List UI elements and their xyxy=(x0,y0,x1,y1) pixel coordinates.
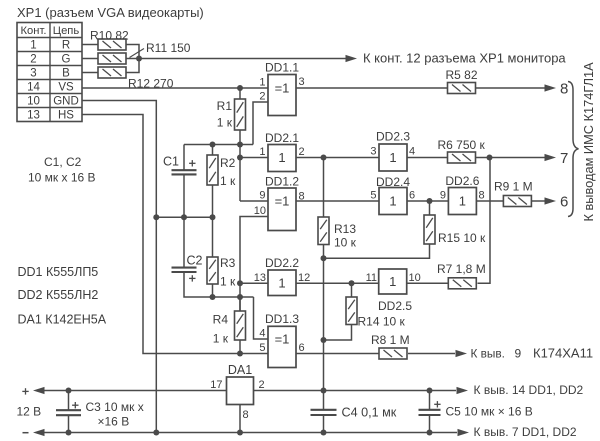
wire R4 bottom to HS net xyxy=(239,340,241,354)
node pin10 net at DD2.2 pin 13 xyxy=(237,280,243,286)
svg-text:R13: R13 xyxy=(334,222,356,236)
node net A R2 top xyxy=(210,142,216,148)
svg-text:DD2.6: DD2.6 xyxy=(445,174,479,188)
wire VS row to DD1.1 pin 1 xyxy=(82,87,268,89)
gate DD1.3 xyxy=(268,326,296,367)
wire from XP1 pin 3 B to R12 xyxy=(82,72,98,74)
svg-text:R6 750 к: R6 750 к xyxy=(438,138,486,152)
node J1 junction R10 R11 R12 xyxy=(126,58,139,60)
svg-text:4: 4 xyxy=(259,328,265,340)
wire net B vertical from net A xyxy=(239,145,241,202)
node GND to minus rail xyxy=(153,430,159,436)
wire R7 to 7-line riser xyxy=(478,158,491,284)
wire HS row to DD1.3 pin 5 xyxy=(82,115,268,354)
arrow output 6 xyxy=(545,197,557,204)
wire R5 to pin8 arrow xyxy=(476,87,545,89)
svg-text:Конт.: Конт. xyxy=(21,25,47,37)
wire C5 bottom xyxy=(429,415,431,433)
wire minus rail xyxy=(42,432,457,434)
wire GND row xyxy=(82,101,156,433)
svg-text:12 В: 12 В xyxy=(17,405,42,419)
svg-text:Цепь: Цепь xyxy=(53,25,80,37)
svg-text:R10 82: R10 82 xyxy=(90,29,129,43)
svg-text:R5 82: R5 82 xyxy=(446,68,478,82)
resistor R6 xyxy=(448,152,476,163)
svg-text:DD1 К555ЛП5: DD1 К555ЛП5 xyxy=(18,265,99,279)
brace outputs xyxy=(568,82,579,217)
wire DD1.2 pin 10 to pin 13 net xyxy=(240,217,268,312)
gate DD2.5 xyxy=(379,269,407,294)
resistor R3 xyxy=(207,257,218,284)
svg-text:=1: =1 xyxy=(275,81,290,96)
svg-text:C1, C2: C1, C2 xyxy=(44,155,82,169)
svg-text:GND: GND xyxy=(53,96,79,108)
svg-text:12: 12 xyxy=(298,272,310,284)
svg-text:DD1.1: DD1.1 xyxy=(265,61,299,75)
svg-text:R4: R4 xyxy=(213,313,229,327)
resistor R1 xyxy=(239,88,241,99)
resistor R8 xyxy=(379,348,407,359)
svg-text:DD2.5: DD2.5 xyxy=(378,299,412,313)
node net A R1 bottom xyxy=(237,142,243,148)
wire DD2.5 pin 10 to R7 xyxy=(407,282,449,284)
node net E R3 bottom xyxy=(210,294,216,300)
wire R9 to pin6 arrow xyxy=(532,200,546,202)
node C5 bottom xyxy=(427,430,433,436)
svg-text:1: 1 xyxy=(278,150,285,165)
svg-text:13: 13 xyxy=(27,110,40,122)
gate DD2.1 xyxy=(268,145,296,172)
wire R1 bottom to net A xyxy=(239,130,241,145)
wire DD2.3 pin 4 to R6 xyxy=(407,157,448,159)
svg-text:1: 1 xyxy=(278,276,285,291)
svg-text:1 к: 1 к xyxy=(217,116,233,130)
resistor R4 xyxy=(239,297,241,311)
svg-text:К выв. 7 DD1, DD2: К выв. 7 DD1, DD2 xyxy=(474,425,577,439)
wire R13 R14 to plus rail vertical xyxy=(323,258,325,390)
gate DD2.3 xyxy=(379,144,407,171)
resistor R5 xyxy=(448,83,476,94)
node net B to DD2.1 pin 1 xyxy=(237,155,243,161)
wire DD2.4 pin 6 to DD2.6 pin 9 xyxy=(407,200,448,202)
svg-text:К выв.: К выв. xyxy=(471,347,505,361)
wire DD1.1 pin 2 to net A xyxy=(253,102,268,145)
node net C R2 bottom xyxy=(210,214,216,220)
wire DD2.1 pin 2 to DD2.3 pin 3 xyxy=(296,157,379,159)
node DA1 pin 8 xyxy=(237,430,243,436)
svg-text:17: 17 xyxy=(210,379,222,391)
node R13 R15 bottom wire xyxy=(321,255,327,261)
wire node J1 to monitor arrow xyxy=(139,58,346,60)
resistor R7 xyxy=(448,278,476,289)
node C4 bottom xyxy=(321,430,327,436)
wire from XP1 pin 1 R to R10 xyxy=(82,44,98,46)
resistor R12 xyxy=(98,67,126,78)
gate DD2.4 xyxy=(379,188,407,215)
leader line R11 label xyxy=(130,49,145,58)
svg-text:3: 3 xyxy=(30,68,36,80)
resistor R13 xyxy=(323,158,325,218)
svg-text:К выводам ИМС К174ГЛ1А: К выводам ИМС К174ГЛ1А xyxy=(581,62,596,222)
svg-text:C5 10 мк × 16 В: C5 10 мк × 16 В xyxy=(446,405,533,419)
wire C3 bottom xyxy=(68,415,70,432)
svg-text:DD1.3: DD1.3 xyxy=(265,312,299,326)
capacitor C3 xyxy=(68,391,70,411)
wire R6 to pin7 arrow xyxy=(476,157,545,159)
svg-text:C2: C2 xyxy=(187,254,203,268)
svg-text:2: 2 xyxy=(259,379,265,391)
svg-text:К174ХА11: К174ХА11 xyxy=(533,346,593,361)
svg-text:6: 6 xyxy=(560,194,568,211)
node riser from R7 xyxy=(487,155,493,161)
svg-text:К выв. 14 DD1, DD2: К выв. 14 DD1, DD2 xyxy=(474,383,584,397)
resistor R10 xyxy=(98,39,126,50)
wire DA1 pin 8 to minus rail xyxy=(239,405,241,433)
svg-text:DD2.2: DD2.2 xyxy=(265,256,299,270)
svg-text:10 к: 10 к xyxy=(334,236,357,250)
svg-text:6: 6 xyxy=(409,190,415,202)
node C5 top xyxy=(427,388,433,394)
svg-text:R11 150: R11 150 xyxy=(146,41,191,55)
svg-text:C4 0,1 мк: C4 0,1 мк xyxy=(342,406,397,420)
svg-text:VS: VS xyxy=(58,82,74,94)
svg-text:10: 10 xyxy=(409,272,421,284)
wire R13 bottom xyxy=(323,245,325,259)
svg-text:1 к: 1 к xyxy=(220,275,236,289)
gate DD2.2 xyxy=(268,270,296,296)
arrow output 7 xyxy=(545,154,557,161)
node R1 top xyxy=(237,85,243,91)
svg-text:ХР1 (разъем VGA видеокарты): ХР1 (разъем VGA видеокарты) xyxy=(17,5,204,20)
svg-text:DD1.2: DD1.2 xyxy=(265,175,299,189)
wire plus rail right to pin14 arrow xyxy=(254,390,457,392)
svg-text:К конт. 12 разъема ХР1 монитор: К конт. 12 разъема ХР1 монитора xyxy=(363,51,566,66)
svg-text:9: 9 xyxy=(259,190,265,202)
svg-text:2: 2 xyxy=(259,91,265,103)
wire R12 to node J1 xyxy=(126,59,139,73)
svg-text:7: 7 xyxy=(560,150,568,167)
wire net E to DD1.3 pin 4 xyxy=(254,297,269,339)
connector XP1 pin table xyxy=(17,23,82,122)
svg-text:5: 5 xyxy=(259,342,265,354)
plus 12V input arrow xyxy=(33,387,45,394)
node C3 top xyxy=(66,388,72,394)
capacitor C2 xyxy=(183,217,185,267)
node R13 tap xyxy=(321,155,327,161)
svg-text:DD2 К555ЛН2: DD2 К555ЛН2 xyxy=(18,288,99,302)
svg-text:1: 1 xyxy=(389,274,396,289)
svg-text:1: 1 xyxy=(259,77,265,89)
capacitor C4 xyxy=(323,391,325,410)
minus 12V input arrow xyxy=(33,429,45,436)
wire from XP1 pin 2 G to R11 xyxy=(82,58,98,60)
svg-text:=1: =1 xyxy=(275,194,290,209)
svg-text:R1: R1 xyxy=(217,99,233,113)
svg-text:DD2.3: DD2.3 xyxy=(376,130,410,144)
svg-text:5: 5 xyxy=(370,190,376,202)
svg-text:4: 4 xyxy=(409,146,415,158)
svg-text:R8 1 M: R8 1 M xyxy=(371,333,410,347)
svg-text:1 к: 1 к xyxy=(220,174,236,188)
wire R10 to node J1 xyxy=(126,45,139,59)
svg-text:G: G xyxy=(62,54,71,66)
wire R8 to К174ХА11 arrow xyxy=(408,353,455,355)
svg-text:11: 11 xyxy=(366,272,377,284)
svg-text:R3: R3 xyxy=(220,256,236,270)
svg-text:9: 9 xyxy=(440,190,446,202)
wire net A horizontal xyxy=(184,144,253,146)
svg-text:2: 2 xyxy=(299,146,305,158)
wire VS output DD1.1 pin 3 to R5 xyxy=(296,87,448,89)
wire pin13 to vertical xyxy=(240,282,268,284)
svg-text:R2: R2 xyxy=(220,156,236,170)
wire DD2.6 pin 8 to R9 xyxy=(476,200,503,202)
node net C C1 C2 midpoint xyxy=(181,214,187,220)
svg-text:1: 1 xyxy=(389,194,396,209)
svg-text:DA1: DA1 xyxy=(228,363,252,377)
node pin10 net at net E xyxy=(237,294,243,300)
wire R2 bottom through net C to R3 top xyxy=(212,185,214,257)
svg-text:8: 8 xyxy=(243,409,249,421)
resistor R14 xyxy=(351,283,353,297)
wire C4 bottom xyxy=(323,415,325,433)
wire plus rail left xyxy=(42,390,227,392)
node GND to bias divider xyxy=(153,214,159,220)
svg-text:=1: =1 xyxy=(275,332,290,347)
svg-text:13: 13 xyxy=(254,272,266,284)
svg-text:8: 8 xyxy=(560,81,568,98)
resistor R9 xyxy=(503,196,531,207)
wire net B to DD2.1 pin 1 xyxy=(240,157,268,159)
svg-text:9: 9 xyxy=(515,347,522,361)
arrow output 8 xyxy=(545,84,557,91)
gate DD1.2 xyxy=(268,188,296,231)
svg-text:R: R xyxy=(62,40,70,52)
svg-text:R15 10 к: R15 10 к xyxy=(438,231,486,245)
wire DD1.2 pin 8 to DD2.4 pin 5 xyxy=(296,200,379,202)
svg-text:10: 10 xyxy=(254,205,266,217)
wire DD2.2 pin 12 to DD2.5 pin 11 xyxy=(296,282,379,284)
node R15 tap xyxy=(427,198,433,204)
svg-text:C1: C1 xyxy=(163,155,179,169)
node R14 joins vertical xyxy=(321,337,327,343)
svg-text:R14 10 к: R14 10 к xyxy=(358,315,406,329)
wire net C horizontal xyxy=(156,216,212,218)
svg-text:1: 1 xyxy=(259,146,265,158)
wire net B to DD1.2 pin 9 xyxy=(240,200,268,202)
wire R3 bottom to net E xyxy=(212,284,214,297)
regulator DA1 xyxy=(227,377,254,405)
svg-text:×16 В: ×16 В xyxy=(98,415,130,429)
wire R14 bottom to vertical xyxy=(324,325,352,341)
svg-text:R7 1,8 М: R7 1,8 М xyxy=(437,262,486,276)
node C3 bottom xyxy=(66,430,72,436)
node R14 tap xyxy=(349,280,355,286)
svg-text:C3 10 мк x: C3 10 мк x xyxy=(86,400,144,414)
resistor R2 xyxy=(212,145,214,156)
svg-text:10 мк x 16 В: 10 мк x 16 В xyxy=(28,171,96,185)
svg-text:HS: HS xyxy=(58,110,74,122)
node R4 bottom on HS net xyxy=(237,351,243,357)
svg-text:1: 1 xyxy=(459,194,466,209)
svg-text:DA1 К142ЕН5А: DA1 К142ЕН5А xyxy=(18,313,107,327)
wire R15 bottom to R13 bottom xyxy=(324,244,430,258)
capacitor C1 xyxy=(183,145,185,171)
svg-text:1: 1 xyxy=(30,40,36,52)
svg-text:R9 1 M: R9 1 M xyxy=(494,180,533,194)
svg-text:DD2.1: DD2.1 xyxy=(265,131,299,145)
svg-text:8: 8 xyxy=(479,190,485,202)
node vertical C4 top xyxy=(321,388,327,394)
resistor R15 xyxy=(429,201,431,215)
wire DD1.3 pin 6 output xyxy=(296,353,379,355)
gate DD2.6 xyxy=(448,188,476,215)
svg-text:3: 3 xyxy=(299,76,305,88)
svg-text:1: 1 xyxy=(389,150,396,165)
wire C2 bottom to net E xyxy=(184,272,254,297)
resistor R11 xyxy=(98,53,126,64)
capacitor C5 xyxy=(429,391,431,410)
svg-text:1 к: 1 к xyxy=(213,332,229,346)
wire C1 bottom to net C xyxy=(183,174,185,217)
svg-text:B: B xyxy=(62,68,70,80)
svg-text:3: 3 xyxy=(370,146,376,158)
svg-text:14: 14 xyxy=(27,82,40,94)
svg-text:10: 10 xyxy=(27,96,40,108)
gate DD1.1 xyxy=(268,75,296,116)
svg-text:6: 6 xyxy=(299,342,305,354)
svg-text:2: 2 xyxy=(30,54,36,66)
